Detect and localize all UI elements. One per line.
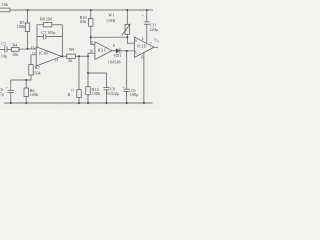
diode VD1 [116,48,120,53]
node: R6 tap [25,79,27,81]
wire [25,80,27,88]
wire [25,97,27,104]
node dots on bottom rail [10,102,12,104]
resistor R6 [24,88,28,97]
wire diode to pin 5 [120,50,134,52]
top rail [10,9,153,11]
resistor R4 [12,47,20,51]
feedback right vertical wire [61,25,63,56]
wire to pin 6 [127,37,134,43]
wire [27,10,29,23]
resistor R9 [67,54,76,58]
resistor R10 [90,9,92,11]
capacitor C5 [0,48,5,50]
bottom rail [4,102,153,104]
wire down to C8/R12 [87,56,89,87]
feedback left vertical wire [37,25,43,47]
node: reference tap [90,36,92,38]
node: R11 tap [78,55,80,57]
output wire pin 7 [154,46,158,48]
wire to pin 10 [88,53,95,56]
resistor R12 [86,87,90,95]
wire to pin 13 [19,48,36,50]
capacitor C8 [106,73,108,88]
pin 12 wire [31,55,36,65]
potentiometer W1 [126,9,128,11]
node: C9 tap [126,50,128,52]
wire [75,55,88,57]
node: rail junction for R5 [27,9,29,11]
node: output of IC1B / feedback [61,55,63,57]
capacitor C9 electrolytic [126,51,128,89]
wire [88,72,107,74]
wire reference to W1 [91,36,128,38]
node: junction R5/R4/pin13 [27,48,29,50]
wire pin 9 [91,44,95,46]
resistor R5 [25,23,29,32]
op-amp IC1D [134,37,154,57]
wire [27,32,29,49]
resistor R11 [78,56,80,89]
node: R12/pin10 branch [87,55,89,57]
op-amp IC1C [95,42,112,60]
wire R7 bottom to bias node [11,75,31,80]
wire [52,24,63,26]
capacitor C7 [37,36,43,38]
resistor R8 [43,23,52,27]
pin 11 wire [143,52,145,103]
resistor R7 [29,65,33,76]
resistor R2 (clipped at left edge) [0,8,10,12]
node: W1/ref/pin6 junction [126,36,128,38]
node: C8 branch [87,72,89,74]
op-amp IC1B [36,47,61,66]
wire [10,92,12,103]
wire [7,48,12,50]
wire [62,55,67,57]
capacitor C6 electrolytic [10,80,12,90]
capacitor C11 electrolytic (pin 4 supply) [146,9,148,11]
wire output IC1C [112,50,116,52]
